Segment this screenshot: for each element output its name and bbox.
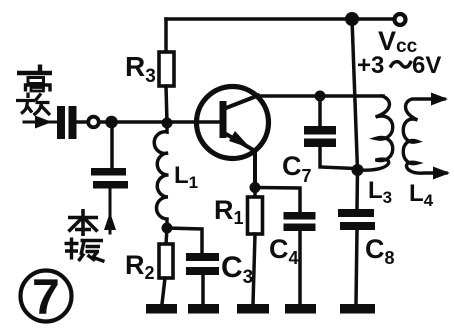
capacitor C8 xyxy=(338,209,375,230)
ground (C8) xyxy=(340,304,375,314)
injection capacitor (local osc) xyxy=(91,168,128,189)
wire C7 upper lead xyxy=(318,96,322,127)
wire base line xyxy=(77,120,220,124)
label 振 (hand glyph) xyxy=(65,238,105,262)
label L4 xyxy=(409,180,434,210)
ground (R1) xyxy=(237,304,269,314)
resistor R1 xyxy=(248,197,263,234)
svg-text:6V: 6V xyxy=(412,52,441,79)
wire C8 to ground xyxy=(356,230,357,304)
label R3 xyxy=(125,51,156,87)
wire C8 upper lead xyxy=(355,170,359,209)
wire top supply rail xyxy=(166,17,394,21)
wire C4 to ground xyxy=(298,231,302,304)
ground (C3) xyxy=(188,304,219,314)
coupling capacitor (input) xyxy=(57,106,77,139)
wire Vcc vertical line xyxy=(352,19,358,170)
node supply junction xyxy=(345,12,359,26)
node input junction xyxy=(105,116,118,129)
wire down to injection capacitor xyxy=(110,122,114,168)
wire R3 upper lead xyxy=(164,19,168,52)
wire emitter junction to C4 xyxy=(255,188,300,213)
label R1 xyxy=(214,195,244,228)
capacitor C4 xyxy=(284,212,316,231)
label R2 xyxy=(125,250,155,283)
transistor Q1 xyxy=(197,87,269,188)
L4 bottom arrowhead xyxy=(433,167,450,180)
ground (R2) xyxy=(146,304,177,314)
wire C7 lower lead xyxy=(320,146,356,169)
input arrowhead xyxy=(35,116,52,129)
label 本 (hand glyph) xyxy=(68,209,98,236)
inductor L1 xyxy=(154,123,168,228)
wire emitter to R1 xyxy=(253,188,257,198)
terminal Vcc xyxy=(395,14,406,25)
wire to R2 xyxy=(166,228,167,244)
label C7 xyxy=(282,151,312,186)
node tank bottom junction xyxy=(352,164,364,176)
svg-text:+3: +3 xyxy=(357,52,384,79)
ground (C4) xyxy=(285,304,316,314)
node L1 bottom junction xyxy=(162,223,173,234)
label 高 (hand glyph) xyxy=(17,65,52,92)
node collector/C7 junction xyxy=(315,91,326,102)
label Vcc xyxy=(378,26,418,57)
inductor L3 xyxy=(360,96,393,170)
label C4 xyxy=(269,234,299,268)
L4 top arrowhead xyxy=(431,93,448,106)
figure number 7 xyxy=(21,269,72,325)
label C3 xyxy=(221,251,253,288)
terminal input xyxy=(88,117,99,128)
local-osc arrowhead xyxy=(104,212,116,230)
capacitor C3 xyxy=(186,253,219,275)
label +3~6V xyxy=(357,52,441,79)
wire collector line to L3 xyxy=(320,94,383,98)
wire C3 to ground xyxy=(201,275,205,304)
wire collector lead xyxy=(258,94,320,98)
node base junction xyxy=(162,118,173,129)
resistor R2 xyxy=(159,244,173,278)
resistor R3 xyxy=(159,52,174,86)
wire input lead with arrow xyxy=(24,121,56,124)
label L3 xyxy=(368,177,392,207)
wire R3 lower lead xyxy=(166,86,167,123)
capacitor C7 xyxy=(304,126,336,147)
label 放 (hand glyph) xyxy=(16,93,50,116)
wire R1 to ground xyxy=(253,234,255,304)
label C8 xyxy=(365,234,395,268)
node emitter junction xyxy=(250,182,261,193)
wire R2 to ground xyxy=(162,278,165,304)
svg-text:7: 7 xyxy=(32,269,60,325)
label L1 xyxy=(174,162,198,192)
wire local-osc lead xyxy=(109,189,112,233)
inductor L4 xyxy=(403,99,446,173)
wire L1 junction to C3 xyxy=(167,228,202,253)
